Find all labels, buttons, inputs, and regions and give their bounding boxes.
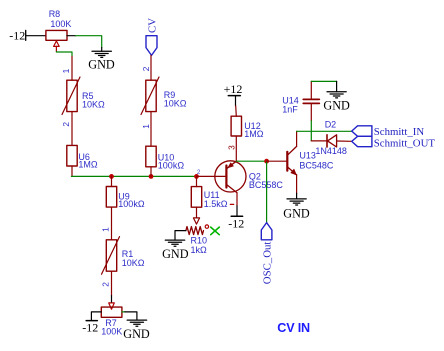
no-connect X: [211, 227, 220, 235]
svg-text:2: 2: [100, 282, 110, 287]
pin (U11 top): [196, 176, 198, 186]
wire: [336, 81, 338, 91]
svg-text:2: 2: [141, 66, 151, 71]
wire: [311, 80, 336, 82]
svg-text:100K: 100K: [50, 19, 71, 29]
resistor R7 100K (potentiometer): [101, 303, 122, 337]
wire: [56, 52, 72, 57]
wire (D2 anode to Schmitt_OUT): [337, 140, 352, 142]
resistor R5 10K (trimmer): [62, 77, 105, 115]
pin (U9 to R1, pin 1): [111, 207, 113, 240]
resistor R9 10K (trimmer): [141, 77, 187, 115]
node junction: [149, 174, 154, 179]
wire: [125, 312, 137, 320]
svg-text:1kΩ: 1kΩ: [191, 245, 208, 255]
svg-text:2: 2: [61, 122, 71, 127]
node junction: [194, 174, 199, 179]
svg-text:1MΩ: 1MΩ: [78, 160, 98, 170]
wire: [67, 35, 76, 37]
wire (Q2 emitter to U13 base node): [236, 160, 266, 162]
resistor U11 1.5k: [191, 187, 228, 210]
svg-text:D2: D2: [325, 119, 337, 129]
node junction: [264, 159, 269, 164]
svg-text:1.5kΩ: 1.5kΩ: [204, 199, 228, 209]
pin (U11 bottom, arrow): [193, 207, 199, 224]
svg-text:100kΩ: 100kΩ: [118, 199, 145, 209]
pin (R1 pin 2): [111, 271, 113, 296]
ground (U13 emitter): [283, 199, 310, 220]
pin (R9 pin 1 to U10): [150, 112, 152, 147]
svg-text:R8: R8: [49, 9, 61, 19]
power +12: [224, 82, 243, 106]
transistor U13 BC548C (NPN): [287, 146, 334, 175]
svg-text:10KΩ: 10KΩ: [164, 99, 187, 109]
pin (U10 bottom): [150, 167, 152, 177]
svg-text:Schmitt_IN: Schmitt_IN: [374, 126, 425, 138]
wire: [122, 311, 125, 313]
hierarchical label CV: [146, 18, 159, 56]
svg-text:GND: GND: [283, 206, 310, 220]
svg-text:BC548C: BC548C: [299, 161, 334, 171]
svg-text:10KΩ: 10KΩ: [122, 258, 145, 268]
wire: [76, 36, 102, 48]
wire: [26, 35, 46, 37]
svg-text:GND: GND: [88, 57, 115, 71]
svg-text:GND: GND: [323, 99, 350, 113]
wire (node to OSC_Out): [266, 161, 268, 222]
svg-text:1N4148: 1N4148: [315, 146, 347, 156]
pin (R5 pin 1): [71, 56, 73, 80]
ground (R7 right): [123, 320, 150, 341]
svg-text:CV: CV: [147, 18, 159, 33]
svg-text:100kΩ: 100kΩ: [158, 160, 185, 170]
wire: [91, 312, 101, 320]
wire (base red segment): [197, 175, 226, 177]
ground (U14): [323, 92, 350, 113]
ground: [88, 51, 115, 71]
pin (U6 bottom): [71, 166, 73, 176]
svg-text:OSC_Out: OSC_Out: [261, 242, 273, 285]
hierarchical label OSC_Out: [261, 223, 273, 285]
svg-text:U13: U13: [299, 151, 316, 161]
wire: [175, 231, 186, 240]
pin (U13 emitter): [296, 175, 298, 193]
svg-text:1nF: 1nF: [282, 104, 298, 114]
resistor R1 10K (trimmer): [102, 237, 145, 275]
svg-text:2: 2: [197, 169, 201, 176]
node junction: [109, 174, 114, 179]
svg-text:Schmitt_OUT: Schmitt_OUT: [374, 137, 436, 149]
svg-text:3: 3: [227, 145, 237, 150]
pin (U12 bottom / Q2 emitter): [235, 136, 237, 161]
svg-text:GND: GND: [123, 327, 150, 341]
pin (R5 pin 2 to U6): [71, 112, 73, 146]
resistor U6 1M: [67, 145, 98, 169]
pin (U14 top): [310, 81, 312, 98]
resistor U12 1M: [231, 116, 264, 139]
wire: [111, 296, 113, 303]
svg-text:1: 1: [141, 124, 151, 129]
svg-text:-12: -12: [82, 321, 98, 335]
resistor R8 100K (potentiometer): [46, 9, 72, 52]
hierarchical label Schmitt_OUT: [352, 136, 436, 149]
resistor U9 100k: [106, 187, 145, 210]
hierarchical label Schmitt_IN: [352, 126, 425, 138]
ground (R10 left): [162, 240, 189, 261]
pin (Q2 collector): [236, 193, 238, 206]
svg-text:1: 1: [61, 68, 71, 73]
svg-text:+12: +12: [224, 82, 243, 96]
wire: [310, 121, 312, 141]
power -12 (under Q2): [228, 206, 244, 231]
resistor R10 1k (zigzag): [186, 225, 209, 255]
power -12 (top left): [9, 28, 25, 42]
svg-text:1MΩ: 1MΩ: [244, 129, 264, 139]
svg-text:1: 1: [100, 227, 110, 232]
wire (Schmitt_IN line): [297, 130, 352, 132]
svg-text:100K: 100K: [101, 327, 122, 337]
pin (U13 collector): [296, 131, 298, 146]
pin (U14 bottom): [310, 104, 312, 121]
pin (U12 top): [235, 106, 238, 116]
svg-text:-12: -12: [9, 28, 25, 42]
pin (U13 base): [267, 160, 287, 162]
wire: [101, 48, 103, 52]
wire (to D2 cathode): [311, 140, 326, 142]
diode D2 1N4148: [315, 119, 347, 156]
capacitor U14 1nF: [282, 96, 319, 115]
svg-text:-12: -12: [228, 216, 244, 230]
pin (R9 pin 2): [150, 55, 152, 80]
wire: [296, 193, 298, 199]
svg-text:10KΩ: 10KΩ: [82, 99, 105, 109]
resistor U10 100k: [146, 146, 185, 170]
transistor Q2 BC558C (PNP): [215, 161, 284, 193]
pin (U9 top): [111, 176, 113, 186]
svg-text:CV IN: CV IN: [277, 321, 310, 335]
svg-text:GND: GND: [162, 247, 189, 261]
pin number dash: [230, 203, 233, 205]
power -12 (bottom left): [82, 321, 98, 335]
wire (bus): [71, 175, 196, 177]
